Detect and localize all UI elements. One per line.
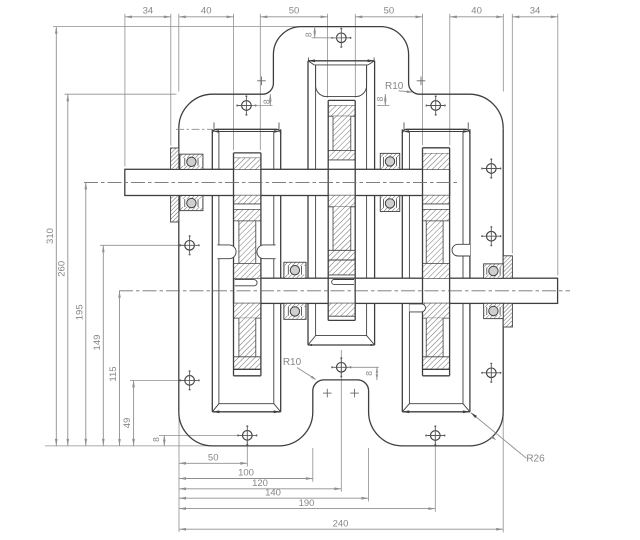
shaft 1 centerline	[84, 181, 458, 183]
middle tower (gear pocket) outline	[308, 60, 375, 62]
shaft 2 centerline	[119, 290, 570, 292]
retainer tab left tower right wall	[257, 245, 276, 259]
left tower (gear pocket) outline	[212, 129, 280, 133]
left tower big gear (on shaft 2)	[234, 209, 261, 211]
corner tick right tower top left	[403, 130, 409, 133]
shaft 2 (output shaft)	[234, 278, 558, 303]
svg-text:149: 149	[92, 335, 103, 351]
corner arrow middle tower bottom right	[371, 344, 375, 346]
bolt hole left lower	[185, 376, 195, 386]
right tower pinion (on shaft 1 end)	[423, 147, 450, 149]
vertical centerline x=341	[340, 350, 342, 492]
svg-text:260: 260	[56, 261, 67, 277]
corner tick right tower top right	[463, 130, 469, 133]
corner tick left tower top left	[213, 130, 219, 133]
middle tower pinion (on shaft 2)	[328, 260, 355, 275]
bearing shaft2 right lower	[484, 303, 504, 318]
dimension 8 top left (flange to bolt row)	[252, 105, 273, 107]
dimension 50 top left	[260, 16, 327, 18]
right bearing boss (hatched)	[503, 256, 512, 278]
corner arrow left tower bottom right	[274, 410, 281, 413]
corner arrow right tower bottom left	[402, 410, 409, 413]
svg-text:100: 100	[238, 468, 254, 479]
dimension 50 top right	[355, 16, 422, 18]
svg-text:8: 8	[375, 96, 385, 101]
dimension 50 bottom	[179, 462, 247, 464]
vertical extension lines for top dimension chain	[124, 14, 126, 167]
svg-text:115: 115	[108, 366, 119, 381]
svg-text:R26: R26	[526, 453, 545, 464]
centerline mark left tower corner	[176, 128, 212, 130]
dimension 115 left	[119, 291, 121, 446]
middle tower top recess	[316, 66, 367, 97]
svg-text:190: 190	[299, 498, 315, 509]
corner arrow middle tower top left	[308, 59, 315, 62]
bearing shaft1 right upper	[380, 153, 399, 169]
svg-text:140: 140	[265, 487, 281, 498]
right tower (gear pocket) outline	[402, 129, 470, 133]
svg-text:8: 8	[261, 99, 271, 104]
retainer tab right tower right wall	[452, 244, 470, 256]
fillet center mark notch right	[350, 392, 359, 394]
bearing shaft2 right upper	[484, 264, 504, 278]
svg-text:50: 50	[208, 452, 219, 463]
svg-text:240: 240	[333, 518, 349, 529]
dimension 8 bottom left (bolt row to bottom)	[163, 435, 165, 446]
retainer tab left tower left wall	[217, 245, 236, 259]
svg-text:34: 34	[143, 6, 154, 17]
svg-text:50: 50	[384, 6, 395, 17]
corner arrow middle tower bottom left	[308, 344, 312, 346]
dimension 34 top left	[125, 16, 171, 18]
svg-text:R10: R10	[385, 81, 404, 92]
key on shaft 2 left end	[235, 280, 257, 286]
shaft 1 (input shaft)	[125, 169, 450, 195]
bearing shaft1 left lower	[180, 196, 203, 211]
left tower input pinion (on shaft 1)	[234, 152, 261, 154]
fillet center mark lobe right	[417, 80, 426, 82]
bearing shaft2 left lower	[284, 303, 306, 319]
dimension 120 bottom	[179, 488, 341, 490]
corner arrow middle tower top right	[368, 59, 375, 62]
housing bottom outline with center notch	[179, 380, 503, 446]
leader R26 bottom right corner	[471, 413, 527, 459]
bolt hole left upper	[185, 241, 195, 251]
dimension 8 top center (lobe top to bolt)	[312, 37, 342, 39]
fillet center mark notch left	[323, 392, 332, 394]
housing top outline with lobe	[179, 27, 503, 129]
svg-text:8: 8	[303, 32, 313, 37]
svg-text:310: 310	[45, 228, 56, 244]
bolt hole top center	[337, 33, 347, 43]
extension line bottom bolt row	[159, 434, 243, 436]
bolt hole top left	[242, 101, 252, 111]
bearing shaft2 left upper	[284, 262, 306, 278]
bolt hole right lower	[487, 368, 497, 378]
retainer tab right tower left wall	[409, 304, 425, 312]
svg-text:8: 8	[151, 437, 161, 442]
dimension 140 bottom	[179, 497, 368, 499]
housing left edge	[178, 128, 180, 169]
extension line lobe top projected left	[53, 26, 299, 28]
right tower big gear (on shaft 2)	[423, 209, 450, 211]
dimension 310 left	[55, 27, 57, 446]
bolt hole top right	[431, 101, 441, 111]
extension line housing bottom projected left	[45, 445, 214, 447]
extension line bolt row y=245 projected left	[100, 244, 186, 246]
bolt hole right middle	[487, 231, 497, 241]
dimension 260 left	[67, 94, 69, 446]
svg-text:R10: R10	[283, 357, 302, 368]
left bearing boss (hatched)	[171, 148, 179, 169]
svg-text:49: 49	[122, 418, 133, 429]
dimension 8 top right (flange to bolt row)	[377, 105, 390, 107]
corner arrow right tower bottom right	[463, 410, 470, 413]
svg-text:195: 195	[74, 304, 85, 320]
vertical extension lines for bottom dimension chain	[178, 414, 180, 533]
extension line bolt row y=380 projected left	[130, 379, 186, 381]
dimension 190 bottom	[179, 508, 435, 510]
housing right edge	[502, 128, 504, 278]
corner tick middle tower slot corners	[308, 58, 310, 61]
leader R10 lobe right fillet	[399, 91, 412, 92]
bearing shaft1 right lower	[380, 196, 399, 212]
extension line flange top projected left	[65, 93, 177, 95]
dimension 8 bottom center (bolt to notch top)	[349, 366, 379, 368]
dimension 49 left	[133, 380, 135, 446]
dimension 40 top right	[450, 16, 504, 18]
svg-text:40: 40	[471, 6, 482, 17]
bolt hole bottom right	[431, 431, 441, 441]
dimension 34 top right	[512, 16, 558, 18]
key on shaft 2 under middle pinion	[332, 280, 354, 285]
svg-text:40: 40	[201, 6, 212, 17]
dimension 195 left	[85, 182, 87, 446]
bolt hole right upper	[487, 164, 497, 174]
svg-text:34: 34	[530, 6, 541, 17]
bolt hole bottom center	[337, 363, 347, 373]
middle tower big gear (on shaft 1)	[328, 99, 355, 101]
dimension 240 bottom	[179, 528, 503, 530]
dimension 100 bottom	[179, 478, 313, 480]
dimension 40 top left	[179, 16, 234, 18]
corner tick left tower top right	[274, 130, 280, 133]
bolt hole bottom left	[243, 431, 253, 441]
fillet center mark lobe left	[257, 80, 266, 82]
dimension 149 left	[102, 245, 104, 446]
corner arrow left tower bottom left	[212, 410, 219, 413]
svg-text:8: 8	[364, 371, 374, 376]
svg-text:50: 50	[289, 6, 300, 17]
leader R10 bottom notch	[297, 368, 315, 380]
bearing shaft1 left upper	[180, 154, 203, 169]
